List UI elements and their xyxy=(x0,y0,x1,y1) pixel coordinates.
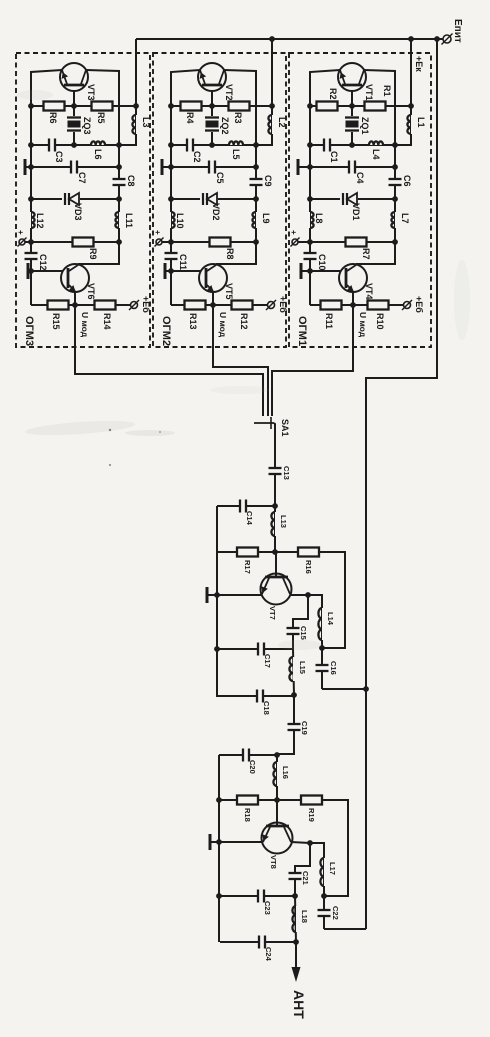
resistor R4 xyxy=(181,102,202,111)
junction xyxy=(392,164,398,170)
wire C18 row xyxy=(217,695,294,697)
junction xyxy=(392,142,398,148)
switch SA1 blade xyxy=(254,422,274,424)
wire base-ZQ-L row xyxy=(351,106,353,145)
svg-text:C17: C17 xyxy=(263,654,272,668)
svg-text:Епит: Епит xyxy=(452,19,463,43)
junction xyxy=(116,142,122,148)
inductor L2 xyxy=(272,115,277,134)
junction xyxy=(363,686,369,692)
scan smudge xyxy=(278,640,322,650)
svg-text:C3: C3 xyxy=(54,151,64,163)
resistor R13 xyxy=(185,301,206,310)
wire base2 row xyxy=(28,270,68,272)
capacitor C21 xyxy=(288,873,303,879)
junction xyxy=(434,36,440,42)
capacitor C17 xyxy=(258,642,264,657)
junction xyxy=(216,839,222,845)
svg-text:L7: L7 xyxy=(400,213,410,224)
svg-text:VD1: VD1 xyxy=(351,203,361,221)
wire collector column xyxy=(224,70,256,242)
junction xyxy=(307,103,313,109)
ground xyxy=(27,263,30,279)
junction xyxy=(28,142,34,148)
svg-text:+: + xyxy=(289,230,298,235)
svg-text:+: + xyxy=(16,230,25,235)
svg-text:L15: L15 xyxy=(298,661,307,674)
wire R11 row xyxy=(171,304,268,306)
inductor L4 xyxy=(369,140,383,145)
resistor R2 xyxy=(317,102,338,111)
wire C22 to rail xyxy=(324,928,366,930)
wire L row xyxy=(31,144,119,146)
wire R-row xyxy=(310,105,411,107)
inductor L8 xyxy=(305,212,310,228)
wire collector column xyxy=(86,70,119,242)
svg-text:VT5: VT5 xyxy=(224,283,234,300)
terminal +Eb xyxy=(404,302,411,309)
scan speck xyxy=(159,431,161,433)
svg-text:C12: C12 xyxy=(38,254,48,271)
junction xyxy=(253,196,259,202)
svg-text:ОГМ3: ОГМ3 xyxy=(23,316,35,346)
svg-text:R14: R14 xyxy=(102,313,112,330)
junction xyxy=(349,142,355,148)
svg-text:R1: R1 xyxy=(382,85,392,97)
svg-text:L9: L9 xyxy=(261,213,271,224)
wire emitter2 column xyxy=(30,271,32,305)
capacitor C7 xyxy=(71,160,77,175)
svg-text:VT8: VT8 xyxy=(269,855,278,869)
svg-text:R11: R11 xyxy=(324,313,334,329)
svg-text:R2: R2 xyxy=(328,88,338,100)
wire C20 row xyxy=(219,754,277,756)
svg-text:R8: R8 xyxy=(225,248,235,260)
varicap VD2 xyxy=(200,191,218,207)
capacitor C16 xyxy=(315,665,330,671)
wire OGM3 output xyxy=(75,305,263,416)
wire emitter tank right xyxy=(308,595,322,608)
junction xyxy=(253,164,259,170)
svg-text:L1: L1 xyxy=(416,117,426,128)
svg-text:SA1: SA1 xyxy=(280,419,290,437)
svg-text:АНТ: АНТ xyxy=(291,990,307,1019)
terminal + xyxy=(292,239,298,245)
junction xyxy=(321,893,327,899)
wire C24 row xyxy=(220,941,296,943)
junction xyxy=(307,840,313,846)
svg-text:+Еб: +Еб xyxy=(141,296,151,313)
svg-text:L3: L3 xyxy=(141,117,151,128)
svg-text:C4: C4 xyxy=(355,172,365,184)
svg-text:R10: R10 xyxy=(375,313,385,330)
junction xyxy=(291,692,297,698)
scan speck xyxy=(109,464,111,466)
capacitor C4 xyxy=(349,160,355,175)
svg-text:ZQ3: ZQ3 xyxy=(82,117,92,135)
wire base row VT7 xyxy=(217,551,298,553)
resistor R9 xyxy=(73,238,94,247)
junction xyxy=(168,103,174,109)
capacitor C1 xyxy=(324,138,330,153)
wire SA1 common xyxy=(274,423,275,465)
capacitor C6 xyxy=(388,179,403,185)
wire antenna xyxy=(295,942,297,970)
wire left column VT8 xyxy=(218,755,220,942)
ground xyxy=(297,159,300,175)
wire R11 row xyxy=(31,304,131,306)
capacitor C3 xyxy=(49,138,55,153)
capacitor C2 xyxy=(187,138,193,153)
junction xyxy=(408,36,414,42)
wire VT7 emitter xyxy=(290,594,308,596)
wire C17 row xyxy=(217,648,293,650)
svg-text:U мод: U мод xyxy=(218,312,228,338)
junction xyxy=(216,797,222,803)
junction xyxy=(274,752,280,758)
wire R-row xyxy=(31,105,136,107)
capacitor C11 xyxy=(164,253,179,259)
junction xyxy=(274,797,280,803)
wire ground row xyxy=(298,166,395,168)
svg-text:L6: L6 xyxy=(93,149,103,160)
wire R16 feed xyxy=(319,552,345,648)
junction xyxy=(214,592,220,598)
scan smudge xyxy=(17,90,53,100)
wire base-ZQ-L row xyxy=(211,106,213,145)
svg-text:C1: C1 xyxy=(329,151,339,163)
wire emitter column xyxy=(171,70,200,242)
svg-text:R7: R7 xyxy=(361,248,371,260)
junction xyxy=(272,503,278,509)
resistor R3 xyxy=(229,102,250,111)
svg-text:L5: L5 xyxy=(231,149,241,160)
capacitor C22 column xyxy=(323,896,325,929)
junction xyxy=(253,142,259,148)
junction xyxy=(210,302,216,308)
terminal Epit xyxy=(443,35,451,43)
inductor L11 xyxy=(119,212,124,228)
wire base lead xyxy=(351,85,353,106)
junction xyxy=(168,164,174,170)
svg-text:R19: R19 xyxy=(307,808,316,822)
junction xyxy=(392,239,398,245)
scan speck xyxy=(109,429,111,431)
capacitor C5 xyxy=(209,160,215,175)
svg-text:R17: R17 xyxy=(243,560,252,574)
svg-text:C15: C15 xyxy=(299,626,308,640)
svg-text:+Еб: +Еб xyxy=(414,296,424,313)
transistor VT7 xyxy=(261,574,292,605)
junction xyxy=(293,939,299,945)
inductor L2 drop xyxy=(271,39,273,106)
terminal + xyxy=(156,239,162,245)
svg-text:C18: C18 xyxy=(262,701,271,715)
svg-text:C23: C23 xyxy=(263,901,272,915)
svg-text:VD2: VD2 xyxy=(211,203,221,221)
junction xyxy=(307,239,313,245)
crystal ZQ2 xyxy=(204,116,220,132)
wire varicap row xyxy=(310,198,395,200)
svg-text:C21: C21 xyxy=(301,871,310,885)
wire base-ZQ-L row xyxy=(73,106,75,145)
svg-text:R9: R9 xyxy=(88,248,98,260)
wire OGM1 output xyxy=(272,305,353,416)
svg-text:VT6: VT6 xyxy=(86,283,96,300)
svg-text:L8: L8 xyxy=(314,213,324,224)
wire OGM2 output xyxy=(213,305,268,416)
ground xyxy=(24,159,27,175)
svg-text:L11: L11 xyxy=(124,213,134,228)
svg-text:VT2: VT2 xyxy=(224,84,234,101)
junction xyxy=(214,646,220,652)
junction xyxy=(116,196,122,202)
junction xyxy=(209,103,215,109)
wire C10 column xyxy=(30,242,32,271)
svg-text:R6: R6 xyxy=(48,112,58,124)
inductor L3 drop xyxy=(135,39,137,106)
svg-text:C13: C13 xyxy=(282,466,291,480)
junction xyxy=(307,164,313,170)
resistor R16 xyxy=(298,548,319,557)
resistor R8 xyxy=(210,238,231,247)
inductor L13 xyxy=(274,506,276,552)
inductor L3 xyxy=(136,115,141,134)
svg-text:C16: C16 xyxy=(329,661,338,675)
capacitor C10 xyxy=(303,253,318,259)
scan smudge xyxy=(210,386,270,394)
ground xyxy=(209,834,212,850)
capacitor C13 xyxy=(268,468,283,474)
svg-text:U мод: U мод xyxy=(358,312,368,338)
wire collector2 xyxy=(78,242,119,264)
terminal +Eb xyxy=(131,302,138,309)
svg-text:C5: C5 xyxy=(215,172,225,184)
svg-text:R18: R18 xyxy=(243,808,252,822)
wire R-row xyxy=(171,105,272,107)
wire emitter column xyxy=(310,70,340,242)
power rail Epit xyxy=(136,38,443,40)
inductor L1 hook xyxy=(395,106,411,145)
capacitor C16 column xyxy=(321,648,323,689)
svg-text:C6: C6 xyxy=(402,175,412,187)
wire C14 row xyxy=(217,505,275,507)
wire L row xyxy=(171,144,256,146)
wire base row VT8 xyxy=(219,799,301,801)
wire left column VT7 xyxy=(216,506,218,697)
inductor L1 xyxy=(411,115,416,134)
inductor L1 drop xyxy=(410,39,412,106)
resistor R6 xyxy=(44,102,65,111)
resistor R15 xyxy=(48,301,69,310)
wire C13 column xyxy=(274,465,276,506)
wire U mod output xyxy=(74,292,76,305)
transistor VT4 xyxy=(339,264,367,292)
svg-text:VT3: VT3 xyxy=(86,84,96,101)
transistor VT3 xyxy=(60,63,88,91)
wire VT8 base-gnd xyxy=(210,841,262,843)
wire base2 row xyxy=(301,270,346,272)
svg-text:R16: R16 xyxy=(304,560,313,574)
capacitor C20 xyxy=(243,748,249,763)
transistor VT5 xyxy=(199,264,227,292)
capacitor C14 xyxy=(240,499,246,514)
wire L row xyxy=(310,144,395,146)
svg-text:ОГМ1: ОГМ1 xyxy=(296,316,308,346)
terminal +Eb xyxy=(268,302,275,309)
inductor L7 xyxy=(395,212,400,228)
scan smudge xyxy=(25,418,136,438)
junction xyxy=(292,893,298,899)
inductor L12 xyxy=(26,212,31,228)
wire varicap row xyxy=(171,198,256,200)
inductor L9 xyxy=(256,212,261,228)
ground xyxy=(300,263,303,279)
svg-text:U мод: U мод xyxy=(80,312,90,338)
svg-text:R5: R5 xyxy=(96,112,106,124)
module box &#1054;&#1043;&#1052;2 xyxy=(153,53,286,347)
junction xyxy=(71,142,77,148)
svg-text:L12: L12 xyxy=(35,213,45,229)
svg-text:C14: C14 xyxy=(245,511,254,526)
wire emitter down xyxy=(293,595,308,649)
svg-text:C11: C11 xyxy=(178,254,188,270)
junction xyxy=(319,645,325,651)
capacitor C18 xyxy=(257,689,263,704)
inductor L10 xyxy=(166,212,171,228)
svg-text:C2: C2 xyxy=(192,151,202,163)
svg-text:L4: L4 xyxy=(371,149,381,160)
svg-text:C10: C10 xyxy=(317,254,327,271)
svg-text:C7: C7 xyxy=(77,172,87,184)
svg-text:+Еб: +Еб xyxy=(278,296,288,313)
wire ground row xyxy=(162,166,256,168)
resistor R12 xyxy=(232,301,253,310)
svg-text:L2: L2 xyxy=(277,117,287,128)
inductor L16 xyxy=(276,755,278,800)
crystal ZQ3 xyxy=(66,116,82,132)
wire R19 feed xyxy=(322,800,348,896)
svg-text:R13: R13 xyxy=(188,313,198,330)
wire R7 row xyxy=(162,241,256,243)
junction xyxy=(168,196,174,202)
antenna arrow xyxy=(292,967,301,982)
transistor VT6 xyxy=(61,264,89,292)
capacitor C9 xyxy=(249,179,264,185)
scan smudge xyxy=(454,260,470,340)
inductor L5 xyxy=(229,140,243,145)
inductor L18 xyxy=(295,896,296,942)
svg-text:L18: L18 xyxy=(300,910,309,923)
capacitor C22 xyxy=(317,910,332,916)
module box &#1054;&#1043;&#1052;3 xyxy=(16,53,150,347)
varicap VD3 xyxy=(62,191,80,207)
svg-text:ZQ2: ZQ2 xyxy=(220,117,230,135)
junction xyxy=(216,893,222,899)
transistor VT1 xyxy=(338,63,366,91)
inductor L6 xyxy=(91,140,105,145)
junction xyxy=(71,103,77,109)
junction xyxy=(28,268,34,274)
svg-text:R15: R15 xyxy=(51,313,61,330)
junction xyxy=(408,103,414,109)
svg-text:C22: C22 xyxy=(331,906,340,920)
inductor L14 xyxy=(321,608,323,648)
junction xyxy=(349,103,355,109)
resistor R7 xyxy=(346,238,367,247)
junction xyxy=(307,268,313,274)
junction xyxy=(307,142,313,148)
resistor R17 xyxy=(237,548,258,557)
wire emitter column xyxy=(31,70,62,242)
inductor L17 xyxy=(323,858,325,896)
svg-text:+Ек: +Ек xyxy=(414,56,424,72)
junction xyxy=(269,36,275,42)
wire C16 to rail xyxy=(322,688,366,690)
svg-text:ОГМ2: ОГМ2 xyxy=(160,316,172,346)
wire base2 row xyxy=(165,270,206,272)
scan smudge xyxy=(125,430,175,436)
svg-text:VT4: VT4 xyxy=(364,283,374,300)
varicap VD1 xyxy=(340,191,358,207)
wire U mod output xyxy=(212,292,214,305)
inductor L15 xyxy=(293,649,294,695)
wire base lead xyxy=(211,85,213,106)
wire supply descender xyxy=(366,39,437,929)
svg-text:R12: R12 xyxy=(239,313,249,330)
resistor R10 xyxy=(368,301,389,310)
svg-text:+: + xyxy=(153,230,162,235)
svg-text:ZQ1: ZQ1 xyxy=(360,117,370,135)
switch SA1 contact xyxy=(270,417,272,429)
svg-text:C19: C19 xyxy=(300,721,309,735)
ground xyxy=(206,587,209,603)
capacitor C15 xyxy=(286,628,301,634)
resistor R1 xyxy=(365,102,386,111)
svg-text:VT7: VT7 xyxy=(268,606,277,620)
resistor R19 xyxy=(301,796,322,805)
svg-text:L10: L10 xyxy=(175,213,185,229)
ground xyxy=(164,263,167,279)
capacitor C8 xyxy=(112,179,127,185)
junction xyxy=(269,103,275,109)
wire C19 column xyxy=(277,695,294,762)
capacitor C19 xyxy=(287,724,302,730)
junction xyxy=(133,103,139,109)
wire varicap row xyxy=(31,198,119,200)
wire U mod output xyxy=(352,292,354,305)
inductor L2 hook xyxy=(256,106,272,145)
junction xyxy=(272,549,278,555)
junction xyxy=(253,239,259,245)
crystal ZQ1 xyxy=(344,116,360,132)
wire emitter tank right xyxy=(310,843,324,858)
wire VT7 base-gnd xyxy=(207,594,261,596)
junction xyxy=(209,142,215,148)
capacitor C12 xyxy=(24,253,39,259)
terminal + xyxy=(19,239,25,245)
wire VT8 emitter xyxy=(291,842,310,843)
transistor VT2 xyxy=(198,63,226,91)
wire emitter2 column xyxy=(170,271,172,305)
svg-text:L13: L13 xyxy=(279,515,288,528)
svg-text:C9: C9 xyxy=(263,175,273,187)
wire base lead xyxy=(73,85,75,106)
svg-text:R3: R3 xyxy=(233,112,243,124)
wire R7 row xyxy=(25,241,119,243)
wire C23 row xyxy=(219,895,295,897)
svg-text:C20: C20 xyxy=(248,760,257,774)
